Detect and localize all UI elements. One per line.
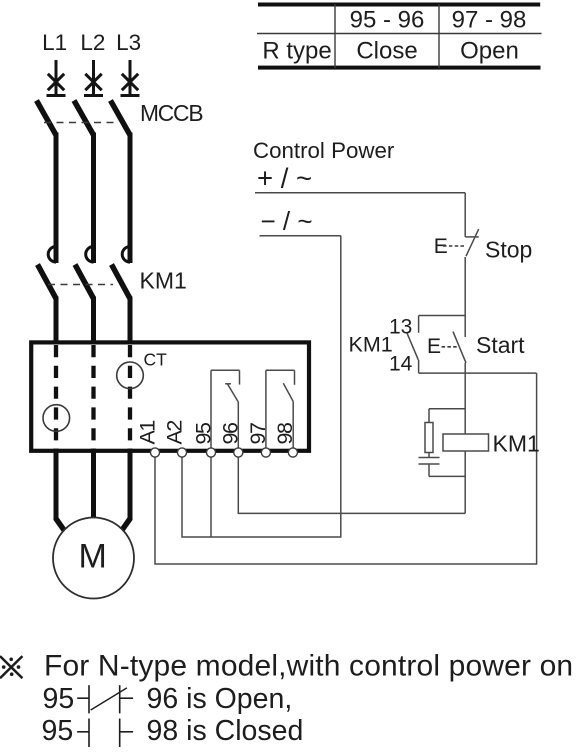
terminal circle A2: [177, 448, 186, 457]
svg-text:R type: R type: [262, 38, 331, 65]
phase 2 dashed in box: [91, 345, 95, 449]
terminal circle 97: [261, 448, 270, 457]
motor feed 1: [54, 449, 59, 520]
phase 3 dashed in box: [128, 345, 132, 449]
wire A1: [155, 373, 537, 564]
contactor KM1 hook 3: [122, 247, 130, 263]
snubber bottom wire: [429, 475, 465, 477]
snubber resistor: [425, 423, 433, 453]
terminal circle 95: [206, 448, 215, 457]
MCCB pole 1 blade: [37, 101, 57, 136]
coil KM1: [443, 434, 489, 451]
svg-text:E: E: [427, 335, 441, 358]
KM1 aux contact: [407, 316, 419, 374]
MCCB linkage dashed: [44, 122, 118, 124]
KM1 pole 3 wire: [128, 297, 133, 345]
start button blade: [453, 332, 466, 363]
table middle line: [257, 33, 542, 35]
stop actuator dashes: [443, 245, 465, 247]
KM1 linkage dashed: [48, 284, 113, 286]
MCCB pole 3 wire: [128, 133, 133, 264]
svg-text:MCCB: MCCB: [140, 100, 202, 126]
svg-text:A1: A1: [135, 421, 159, 445]
stop button bar: [465, 236, 478, 238]
stop button blade: [466, 229, 479, 256]
snubber top wire: [429, 408, 465, 410]
control power minus rail: [260, 235, 341, 237]
start actuator dashes: [442, 346, 458, 348]
wire coil to 96: [464, 451, 466, 513]
terminal L1: [47, 60, 66, 96]
svg-text:Start: Start: [476, 332, 525, 358]
svg-text:95: 95: [43, 683, 75, 715]
svg-text:KM1: KM1: [493, 431, 540, 457]
svg-text:95: 95: [42, 715, 74, 747]
svg-text:96 is Open,: 96 is Open,: [147, 683, 293, 715]
phase 1 dashed in box: [54, 345, 58, 449]
note contact symbol line 2: [77, 685, 133, 713]
svg-text:Close: Close: [356, 38, 417, 65]
contactor KM1 hook 1: [48, 247, 56, 263]
terminal L3: [121, 60, 140, 96]
svg-text:− / ~: − / ~: [261, 206, 313, 236]
svg-text:Open: Open: [460, 38, 519, 65]
svg-text:14: 14: [389, 353, 413, 376]
KM1 pole 1 wire: [54, 297, 59, 345]
KM1 pole 2 wire: [91, 297, 96, 345]
table column divider 1: [334, 4, 336, 68]
svg-text:KM1: KM1: [140, 268, 187, 294]
svg-text:+ / ~: + / ~: [257, 163, 312, 194]
terminal circle 96: [234, 448, 243, 457]
wire stop to start: [464, 257, 466, 337]
svg-text:97 - 98: 97 - 98: [452, 6, 527, 33]
KM1 pole 3 blade: [112, 265, 131, 299]
note contact symbol line 3: [77, 719, 133, 748]
wire 96: [238, 457, 465, 513]
svg-text:CT: CT: [144, 350, 168, 370]
wire plus to stop: [464, 193, 466, 237]
MCCB pole 2 wire: [91, 133, 96, 264]
snubber capacitor: [428, 453, 430, 458]
svg-text:For N-type model,with control: For N-type model,with control power on: [44, 650, 573, 683]
terminal circle 98: [288, 448, 297, 457]
svg-text:A2: A2: [162, 421, 186, 445]
sensor circle phase 1: [43, 405, 70, 432]
KM1 pole 2 blade: [75, 265, 94, 299]
svg-text:L1: L1: [42, 30, 67, 55]
svg-text:M: M: [79, 538, 107, 576]
svg-text:L2: L2: [80, 30, 105, 55]
MCCB pole 2 blade: [74, 101, 94, 136]
terminal circle A1: [150, 448, 159, 457]
relay contact 95-96: [211, 370, 240, 448]
motor feed 2: [91, 449, 96, 520]
KM1 pole 1 blade: [38, 265, 57, 299]
svg-text:96: 96: [219, 422, 243, 444]
wire start to coil: [464, 363, 466, 434]
motor M: [53, 518, 134, 599]
wire 95: [210, 457, 212, 537]
wire A2: [182, 236, 341, 537]
terminal L2: [84, 60, 103, 96]
svg-text:KM1: KM1: [349, 333, 393, 357]
svg-text:98 is Closed: 98 is Closed: [147, 715, 304, 747]
soft starter box: [31, 342, 309, 450]
CT circle: [117, 362, 144, 389]
table column divider 2: [438, 4, 440, 68]
motor feed 3: [128, 449, 133, 520]
svg-text:Control Power: Control Power: [253, 138, 395, 163]
svg-text:95: 95: [191, 422, 215, 444]
svg-text:95 - 96: 95 - 96: [350, 6, 425, 33]
MCCB pole 1 wire: [54, 133, 59, 264]
note mark: [0, 656, 22, 678]
contactor KM1 hook 2: [86, 247, 94, 263]
branch bottom: [419, 372, 537, 374]
svg-text:L3: L3: [116, 30, 141, 55]
table bottom border: [258, 66, 541, 70]
table top border: [258, 3, 540, 7]
MCCB pole 3 blade: [111, 101, 131, 136]
relay contact 97-98: [266, 370, 295, 448]
svg-text:Stop: Stop: [485, 237, 532, 263]
svg-text:98: 98: [273, 422, 297, 444]
svg-text:97: 97: [246, 423, 270, 444]
control power plus rail: [255, 192, 465, 194]
branch top: [419, 315, 466, 317]
